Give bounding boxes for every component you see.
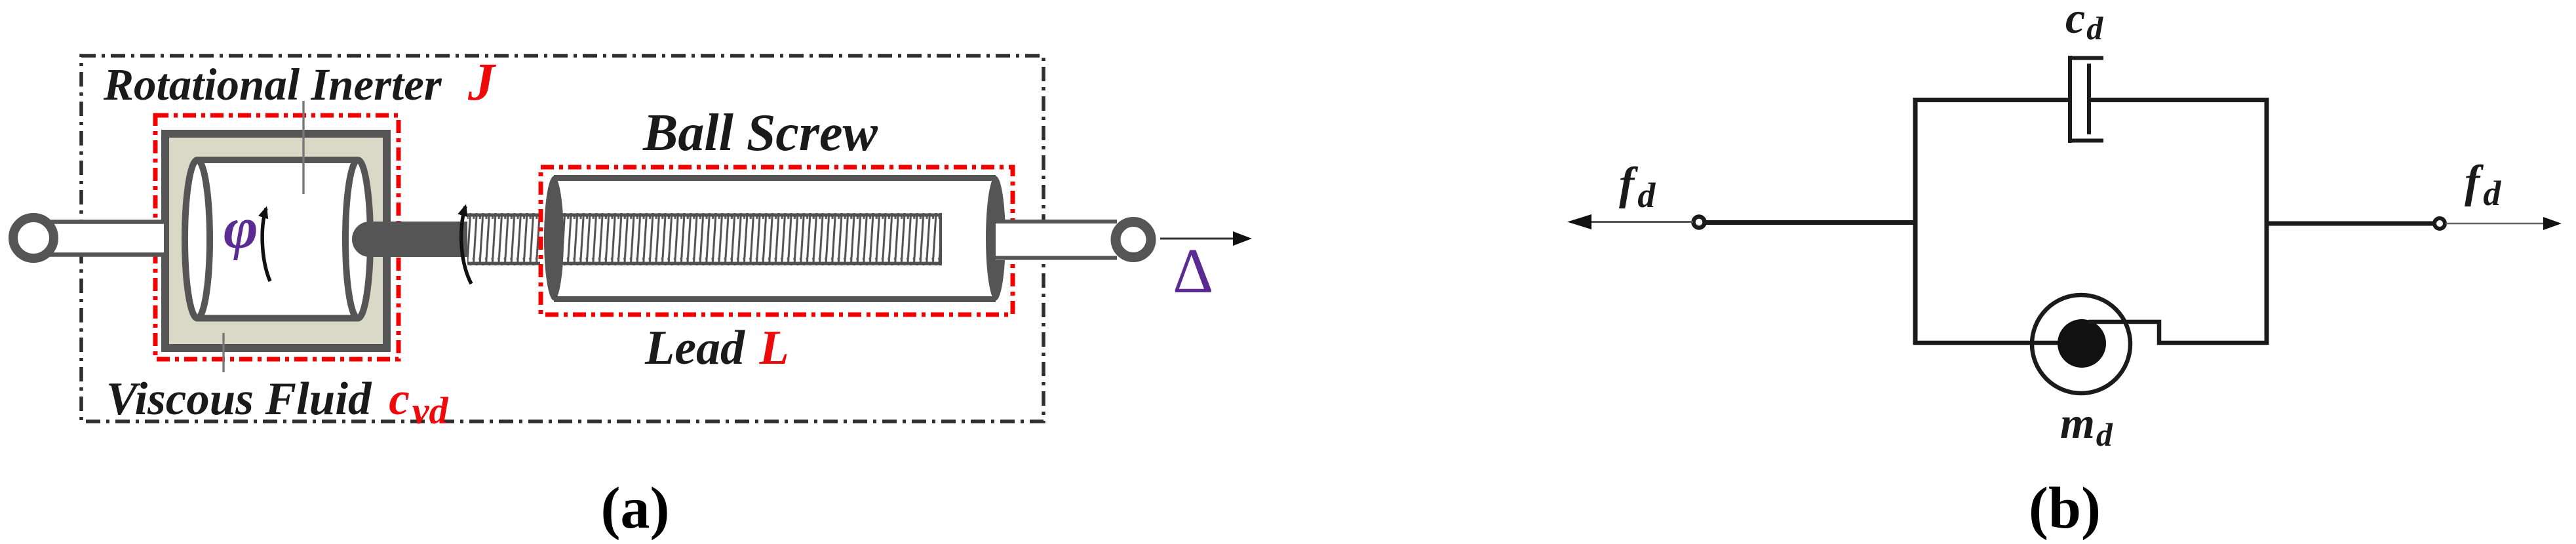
svg-text:Δ: Δ [1173,236,1213,306]
right terminal tube [996,220,1117,260]
left terminal wire [1704,220,1917,225]
outer dash-dot enclosure (a) [81,56,1044,421]
right terminal wire [2267,222,2434,226]
mass dot [2058,319,2106,368]
flywheel cylinder body [197,157,358,321]
network box left edge [1913,98,1918,345]
flywheel right end ellipse [345,160,370,318]
svg-text:Lead L: Lead L [644,321,789,375]
screw thread (inside housing) [562,213,942,265]
svg-text:Viscous Fluid cvd: Viscous Fluid cvd [106,374,448,432]
screw thread (outside housing) [467,213,540,265]
left force arrow [1567,214,1693,229]
damper c_d symbol [2068,56,2103,143]
ball screw housing body [554,175,996,301]
red dash-dot box: ball screw / lead [541,167,1013,315]
svg-text:Rotational Inerter: Rotational Inerter [103,60,442,109]
left terminal tube [39,220,164,256]
svg-text:(a): (a) [601,476,670,541]
svg-text:(b): (b) [2029,476,2101,541]
mass m_d circle [2032,295,2130,393]
wire out of mass with jog [2088,322,2267,343]
drive shaft (dark rod) [352,222,468,257]
displacement arrow [1160,231,1252,246]
svg-text:φ: φ [224,196,258,261]
network box top edge (left of damper) [1913,98,2070,102]
network box top edge (right of damper) [2089,98,2269,102]
left eye ring [13,218,54,258]
leader line to flywheel [302,101,304,194]
viscous fluid housing (olive box) [165,134,387,348]
red dash-dot box: rotational inerter [155,115,399,359]
network box bottom edge (left of mass) [1913,341,2075,345]
rotation arrow (flywheel) [262,208,270,281]
housing right end cap [986,176,1005,301]
right eye ring [1116,222,1151,258]
svg-text:J: J [467,52,497,111]
left node [1694,217,1705,228]
svg-text:Ball Screw: Ball Screw [642,104,878,162]
flywheel left end ellipse [185,160,210,318]
wire into mass [2031,341,2075,345]
right node [2434,218,2445,229]
right force arrow [2446,217,2562,230]
housing left end cap [544,176,564,301]
rotation arrow (shaft) [461,206,471,284]
leader line to viscous fluid [222,333,224,372]
network box right edge [2265,98,2269,345]
